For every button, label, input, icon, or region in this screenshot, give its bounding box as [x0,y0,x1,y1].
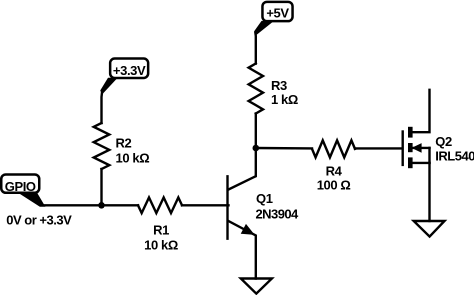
svg-text:100 Ω: 100 Ω [317,178,351,193]
svg-text:10 kΩ: 10 kΩ [116,151,150,166]
svg-text:0V or +3.3V: 0V or +3.3V [6,212,72,227]
svg-text:IRL540: IRL540 [435,148,474,163]
svg-text:R1: R1 [153,223,169,238]
svg-text:+3.3V: +3.3V [113,63,146,78]
svg-text:2N3904: 2N3904 [256,206,300,221]
svg-text:GPIO: GPIO [5,179,36,194]
svg-text:Q2: Q2 [435,134,452,149]
svg-text:R2: R2 [116,136,132,151]
svg-text:1 kΩ: 1 kΩ [271,92,298,107]
svg-text:10 kΩ: 10 kΩ [144,238,178,253]
svg-text:+5V: +5V [266,5,289,20]
svg-text:R4: R4 [326,163,343,178]
svg-text:Q1: Q1 [256,191,273,206]
svg-text:R3: R3 [271,78,287,93]
